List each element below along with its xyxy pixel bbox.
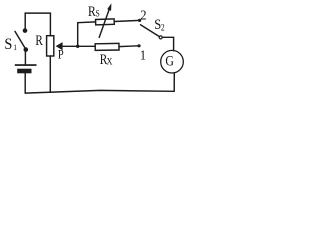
switch S1 lever (open): [15, 31, 26, 49]
resistor R (potentiometer body): [47, 36, 54, 56]
wire R bottom to bottom rail: [49, 56, 51, 92]
label S2: [154, 16, 164, 32]
label RS: [88, 3, 100, 20]
svg-text:2: 2: [140, 7, 146, 23]
svg-text:S: S: [4, 35, 12, 53]
svg-text:P: P: [58, 48, 64, 62]
wire S1 to battery: [24, 51, 26, 65]
resistor RX body: [95, 43, 119, 50]
svg-text:1: 1: [13, 42, 17, 52]
wire battery down to bottom rail: [24, 73, 26, 93]
node wiper junction: [76, 45, 79, 48]
battery positive plate (long thin): [15, 64, 37, 66]
wiper P arrowhead: [56, 42, 63, 50]
battery negative plate (short thick): [17, 69, 31, 74]
svg-text:R: R: [35, 33, 43, 49]
wiper P line: [62, 45, 95, 47]
svg-text:1: 1: [140, 47, 146, 63]
label S1: [4, 35, 17, 53]
wire RX to contact 1: [119, 45, 139, 48]
switch S2 lever: [141, 25, 160, 37]
svg-text:2: 2: [161, 23, 165, 33]
wire bottom rail: [25, 90, 174, 93]
label RX: [100, 52, 113, 67]
svg-text:S: S: [96, 9, 101, 19]
svg-text:G: G: [165, 52, 174, 69]
galvanometer G circle: [161, 50, 184, 73]
node contact 2: [138, 19, 141, 22]
svg-text:X: X: [107, 56, 113, 67]
node contact 1: [137, 44, 140, 47]
wire top-left corner: [25, 13, 50, 35]
switch S2 pivot: [159, 36, 162, 39]
wire S2 pivot to galvanometer: [162, 37, 173, 51]
rheostat RS arrow line: [99, 7, 110, 38]
rheostat RS body: [96, 19, 115, 25]
wire G to bottom rail: [173, 73, 175, 91]
switch S1 top contact node: [23, 28, 28, 33]
rheostat RS arrowhead: [107, 3, 111, 11]
wire junction up to RS branch: [78, 22, 96, 46]
wire RS to contact 2: [114, 20, 139, 21]
switch S1 bottom contact node: [24, 47, 29, 52]
